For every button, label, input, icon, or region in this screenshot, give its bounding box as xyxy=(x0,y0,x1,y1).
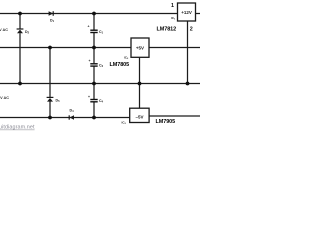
svg-text:9V AC: 9V AC xyxy=(0,96,9,100)
wire vertical x=50 D5 branch xyxy=(49,48,51,98)
svg-text:C1: C1 xyxy=(99,30,104,35)
wire vertical x=20 D2 branch xyxy=(19,14,21,29)
wire top rail AC1/+V y=13 xyxy=(0,13,178,15)
wire LM7812 pin2 ground drop x=187.5 xyxy=(187,21,189,84)
wire -5V output xyxy=(149,115,200,117)
svg-text:9V AC: 9V AC xyxy=(0,28,8,32)
wire +5V output xyxy=(149,47,200,49)
svg-text:+5V: +5V xyxy=(136,46,144,51)
svg-text:+12V: +12V xyxy=(181,10,192,15)
diode D2 xyxy=(17,29,30,35)
node +V C1 top xyxy=(92,12,96,16)
svg-text:LM7812: LM7812 xyxy=(157,27,177,33)
diode D5 xyxy=(47,97,61,103)
capacitor C4 xyxy=(88,95,104,104)
node gnd regulator pins xyxy=(138,82,142,86)
wire mid rail y=47.5 xyxy=(0,47,131,49)
svg-text:–5V: –5V xyxy=(135,115,143,120)
svg-text:+: + xyxy=(88,25,90,29)
svg-text:C4: C4 xyxy=(99,99,104,104)
svg-text:D2: D2 xyxy=(25,30,30,35)
svg-text:D5: D5 xyxy=(56,99,61,104)
svg-text:D1: D1 xyxy=(50,19,55,24)
svg-text:LM7905: LM7905 xyxy=(156,119,176,125)
node mid rail C1/C3 xyxy=(92,46,96,50)
svg-text:IC3: IC3 xyxy=(122,121,127,126)
svg-text:C3: C3 xyxy=(99,63,104,68)
wire LM7805 ground pin to LM7905 ground pin x=139.5 xyxy=(139,57,141,108)
wire ground rail y=83.5 xyxy=(0,83,200,85)
svg-text:+: + xyxy=(89,59,91,63)
svg-text:+: + xyxy=(88,95,90,99)
svg-text:LM7805: LM7805 xyxy=(110,62,130,68)
svg-text:2: 2 xyxy=(190,27,193,33)
regulator U3 LM7905 box xyxy=(130,108,149,122)
regulator U1 LM7812 box xyxy=(178,3,196,21)
node AC2 D5 anode xyxy=(48,116,52,120)
wire bottom rail AC2 y=117 xyxy=(0,117,130,119)
node mid rail D5 tap xyxy=(48,46,52,50)
wire vertical x=94 capacitor chain xyxy=(93,14,95,30)
svg-text:uitdiagram.net: uitdiagram.net xyxy=(0,125,35,131)
svg-text:D4: D4 xyxy=(70,109,75,114)
node AC1/D2 top xyxy=(18,12,22,16)
diode D4 xyxy=(69,109,74,120)
capacitor C1 xyxy=(88,25,104,35)
capacitor C3 xyxy=(89,59,104,68)
wire +12V output xyxy=(196,13,201,15)
node gnd C3/C4 xyxy=(92,82,96,86)
regulator U2 LM7805 box xyxy=(131,38,149,57)
node junction dots xyxy=(18,12,189,120)
diode D1 xyxy=(49,11,55,23)
node gnd D2 anode xyxy=(18,82,22,86)
node AC2 C4 bottom xyxy=(92,116,96,120)
node gnd LM7812 pin2 xyxy=(186,82,190,86)
svg-text:IC2: IC2 xyxy=(124,56,129,61)
svg-text:IC1: IC1 xyxy=(171,16,176,21)
svg-text:1: 1 xyxy=(171,3,174,9)
